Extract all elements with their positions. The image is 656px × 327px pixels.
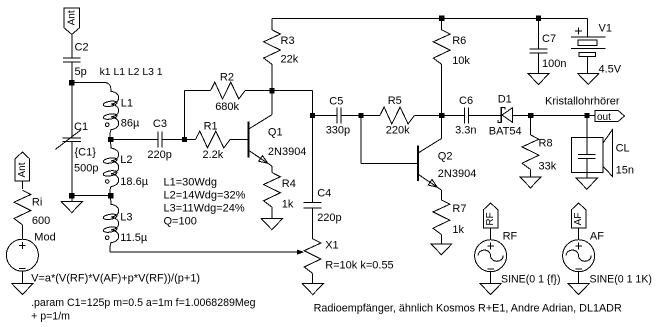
voltage source AF [563,240,595,272]
wire node to R1 [185,139,196,141]
svg-text:out: out [597,112,611,123]
wire R8 down [530,116,532,135]
wire R6 bottom [441,65,443,116]
wire CL to ground [586,159,588,179]
svg-text:3.3n: 3.3n [455,124,476,136]
svg-text:4.5V: 4.5V [599,64,622,76]
svg-text:R5: R5 [388,95,402,107]
wire Q2 collector up [441,116,443,139]
svg-text:RF: RF [485,212,496,225]
diode D1 BAT54 [500,107,502,123]
svg-text:22k: 22k [281,54,299,66]
node C5-left junction [310,113,315,118]
svg-text:+ p=1/m: + p=1/m [31,311,70,323]
svg-text:220p: 220p [317,212,341,224]
svg-text:Ri: Ri [32,197,42,209]
wire Ant to C2 [71,35,73,58]
wire C1 to gnd node [71,142,73,196]
svg-text:.param C1=125p m=0.5 a=1m f=1.: .param C1=125p m=0.5 a=1m f=1.0068289Meg [31,297,255,309]
node D1/R8 junction [528,113,533,118]
wire R6 to rail [441,18,443,30]
X1 wiper arrow [297,250,304,255]
ground (Mod) [12,284,33,295]
svg-text:RF: RF [503,231,518,243]
wire rail to V1 [587,18,589,37]
svg-text:L3=11Wdg=24%: L3=11Wdg=24% [164,203,245,215]
wire R1 to Q1 base [230,139,248,141]
wire C3 to R1 node [162,139,185,141]
wire C7 to ground [538,53,540,73]
wire node to C6 [442,115,465,117]
svg-text:L1: L1 [121,98,133,110]
svg-text:CL: CL [616,143,630,155]
svg-text:Q1: Q1 [268,127,283,139]
wire out node to flag [587,115,595,117]
node L1/L2/C3 junction [108,137,113,142]
ground (AF) [568,284,589,295]
resistor R5 [380,107,415,124]
svg-text:X1: X1 [325,239,338,251]
capacitor C5 [336,108,338,124]
wire node to R5 [361,115,380,117]
wire Q1 collector up [271,91,273,115]
capacitor C3 [157,132,159,148]
svg-text:R=10k k=0.55: R=10k k=0.55 [325,260,394,272]
svg-text:SINE(0 1 {f}): SINE(0 1 {f}) [501,274,560,286]
wire Q2 emitter to R7 [440,190,442,200]
wire corner down to C5 node [312,91,314,116]
svg-text:Ant: Ant [17,162,28,177]
transistor Q1 [247,122,249,158]
svg-text:R6: R6 [452,35,466,47]
wire L1node to C3 [111,139,158,141]
svg-text:Ant: Ant [66,10,77,25]
wire node to C1 [71,83,73,138]
svg-text:10k: 10k [452,55,470,67]
svg-text:R4: R4 [282,178,296,190]
svg-text:k1 L1 L2 L3 1: k1 L1 L2 L3 1 [100,67,163,78]
resistor R4 [264,173,281,208]
node Q1 collector junction [269,88,274,93]
wire Q2 base lead [361,162,418,164]
wire tank gnd to L2 node [72,195,111,197]
net flag Ant (top) [64,8,80,34]
svg-text:L1=30Wdg: L1=30Wdg [164,177,218,189]
svg-text:2N3904: 2N3904 [268,146,307,158]
resistor R6 [433,30,450,65]
wire junction up to R2 [184,91,186,140]
ground (C7) [528,74,549,85]
svg-text:600: 600 [32,215,50,227]
wire collector node to C5 corner [272,90,313,92]
ground (X1) [302,284,323,295]
svg-text:V1: V1 [599,22,612,34]
wire Mod to ground [21,271,23,283]
svg-text:C2: C2 [75,41,89,53]
ground (R7) [431,244,452,255]
battery V1 [571,36,606,38]
wire R7 to ground [440,235,442,244]
svg-text:R2: R2 [220,72,234,84]
svg-text:220p: 220p [147,149,171,161]
svg-text:86µ: 86µ [121,118,140,130]
voltage source RF [475,240,507,272]
wire Ri to Mod [21,225,23,239]
capacitor C6 [464,108,466,124]
wire out node to CL [586,116,588,155]
wire C6 to D1 [469,115,502,117]
svg-text:100n: 100n [542,58,566,70]
svg-text:33k: 33k [539,161,557,173]
ground (CL) [576,178,597,189]
svg-text:SINE(0 1 1K): SINE(0 1 1K) [590,274,652,286]
potentiometer X1 [304,239,321,274]
wire C4 down [312,116,314,203]
svg-text:Kristallohrhörer: Kristallohrhörer [545,96,620,108]
wire L3 to X1 wiper [110,251,297,253]
svg-text:5p: 5p [75,66,87,78]
wire node to C5 [313,115,338,117]
svg-text:C4: C4 [317,188,331,200]
svg-text:11.5µ: 11.5µ [120,232,148,244]
node C1-bottom junction [69,193,74,198]
resistor R8 [522,135,539,170]
node out junction [584,113,589,118]
wire node to L1 [72,82,106,84]
wire C5 to R5 node [341,115,361,117]
wire to R2 body [185,90,211,92]
wire R4 to ground [271,207,273,219]
capacitor C4 [303,201,321,203]
svg-text:R8: R8 [539,138,553,150]
svg-text:1k: 1k [282,199,294,211]
wire RF flag to source [490,228,492,240]
svg-text:220k: 220k [386,124,410,136]
wire R8 node to out node [531,115,587,117]
svg-text:Q2: Q2 [438,150,453,162]
wire R5 to R6 node [414,115,442,117]
resistor R3 [264,30,281,65]
svg-text:C1: C1 [74,121,88,133]
transistor Q2 [417,146,419,182]
svg-text:L2=14Wdg=32%: L2=14Wdg=32% [164,190,246,202]
wire R8 to ground [530,170,532,177]
ground (RF) [480,284,501,295]
wire AF flag to source [578,228,580,240]
node L2/L3 junction [108,193,113,198]
node rail/R6 junction [439,16,444,21]
wire AF to ground [578,272,580,284]
svg-text:18.6µ: 18.6µ [120,176,148,188]
svg-text:C3: C3 [153,118,167,130]
wire RF to ground [490,272,492,284]
wire X1 to ground [312,273,314,283]
inductor L1 [106,83,119,140]
svg-text:C7: C7 [542,33,556,45]
svg-text:AF: AF [573,213,584,226]
wire D1 to R8 node [513,115,531,117]
svg-text:2N3904: 2N3904 [438,168,477,180]
inductor L2 [110,140,119,196]
svg-text:L2: L2 [120,154,132,166]
svg-text:500p: 500p [74,162,98,174]
wire junction to ground [71,196,73,202]
ground (R4) [261,219,282,230]
wire Q1 emitter to R4 [271,166,273,172]
inductor L3 [110,196,119,252]
wire V1 to ground [587,56,589,73]
svg-text:15n: 15n [616,165,634,177]
svg-text:Q=100: Q=100 [164,216,197,228]
resistor R7 [433,200,450,235]
node C3/R1/R2 junction [182,137,187,142]
node C5-right junction [358,113,363,118]
wire Ant flag to Ri [21,181,23,189]
resistor Ri [14,190,31,225]
wire Q2 base down [360,116,362,164]
svg-text:1k: 1k [452,224,464,236]
crystal earphone CL [572,138,604,173]
net flag out [595,110,625,121]
wire C4 to X1 [312,208,314,239]
svg-text:C6: C6 [459,95,473,107]
ground (tank) [61,202,82,213]
wire C7 down [538,18,540,49]
wire R3 bottom [271,64,273,91]
ground (R8) [520,177,541,188]
wire top rail [272,17,588,19]
svg-text:R3: R3 [281,35,295,47]
node rail/C7 junction [536,16,541,21]
svg-text:330p: 330p [326,125,350,137]
wire R2 to collector node [245,90,272,92]
net flag Ant (left) [15,152,30,181]
svg-text:R1: R1 [204,121,218,133]
behavioral source Mod [6,239,38,271]
resistor R1 [196,131,231,148]
wire C2 to node k1 [71,62,73,83]
node tank-top junction [69,80,74,85]
net flag AF [571,203,586,228]
capacitor C7 [530,48,548,50]
svg-text:{C1}: {C1} [75,147,97,159]
svg-text:V=a*(V(RF)*V(AF)+p*V(RF))/(p+1: V=a*(V(RF)*V(AF)+p*V(RF))/(p+1) [31,273,200,285]
svg-text:2.2k: 2.2k [203,149,224,161]
svg-text:D1: D1 [498,94,512,106]
capacitor C1 (variable) [63,137,81,139]
resistor R2 [211,82,246,99]
wire R3 to rail [271,18,273,30]
svg-text:Mod: Mod [34,232,55,244]
node R6/C6 junction [439,113,444,118]
svg-text:BAT54: BAT54 [489,125,522,137]
svg-text:C5: C5 [329,95,343,107]
svg-text:Radioempfänger, ähnlich Kosmos: Radioempfänger, ähnlich Kosmos R+E1, And… [314,302,622,314]
svg-text:680k: 680k [215,101,239,113]
net flag RF [483,203,498,228]
svg-text:AF: AF [590,231,604,243]
svg-text:R7: R7 [452,203,466,215]
svg-text:L3: L3 [120,212,132,224]
capacitor C2 [63,57,81,59]
ground (V1) [578,74,599,85]
